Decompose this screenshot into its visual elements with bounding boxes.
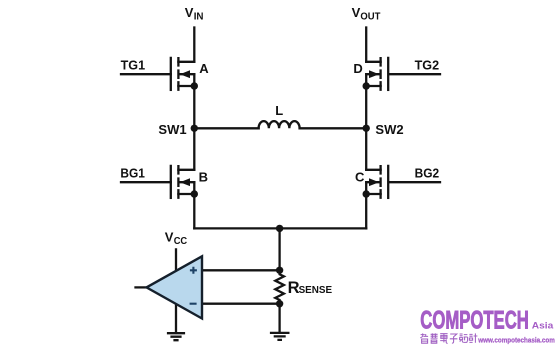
svg-text:SENSE: SENSE	[299, 284, 333, 296]
svg-text:TG1: TG1	[121, 58, 146, 73]
svg-text:V: V	[165, 230, 174, 245]
svg-text:www.compotechasia.com: www.compotechasia.com	[477, 336, 555, 345]
svg-text:SW1: SW1	[158, 122, 186, 137]
svg-text:BG2: BG2	[415, 165, 440, 180]
svg-text:CC: CC	[174, 236, 188, 247]
svg-text:BG1: BG1	[120, 165, 144, 180]
svg-text:C: C	[355, 169, 365, 184]
svg-text:COMPOTECH: COMPOTECH	[420, 307, 529, 334]
svg-text:V: V	[352, 5, 361, 20]
svg-text:SW2: SW2	[375, 122, 403, 137]
svg-text:L: L	[275, 103, 283, 118]
svg-text:Asia: Asia	[532, 320, 555, 330]
svg-text:IN: IN	[194, 12, 204, 23]
svg-text:OUT: OUT	[360, 12, 380, 23]
svg-text:TG2: TG2	[415, 58, 440, 73]
svg-text:D: D	[353, 61, 362, 76]
svg-text:V: V	[185, 5, 194, 20]
svg-text:B: B	[199, 169, 208, 184]
svg-text:A: A	[199, 61, 209, 76]
